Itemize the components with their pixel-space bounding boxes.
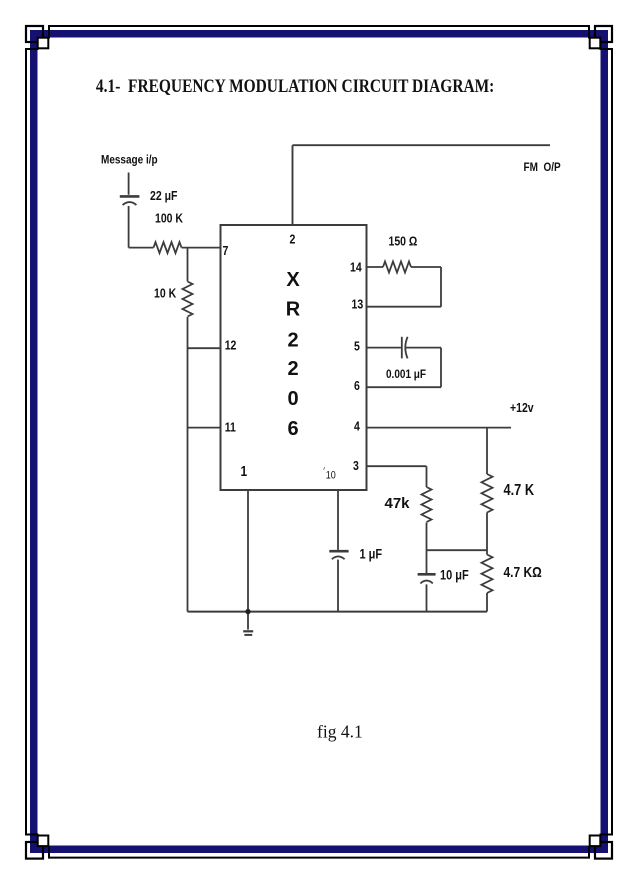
svg-text:150 Ω: 150 Ω (389, 235, 418, 249)
svg-text:Message i/p: Message i/p (101, 154, 158, 167)
svg-text:47k: 47k (385, 495, 411, 512)
svg-text:2: 2 (290, 233, 296, 247)
svg-text:14: 14 (350, 261, 362, 275)
svg-text:13: 13 (352, 297, 364, 311)
svg-text:10 μF: 10 μF (440, 567, 469, 582)
svg-text:2: 2 (287, 330, 298, 352)
svg-text:22 μF: 22 μF (150, 189, 177, 203)
svg-text:10: 10 (326, 470, 336, 482)
svg-text:X: X (286, 269, 300, 291)
svg-text:1: 1 (241, 463, 248, 479)
svg-text:fig 4.1: fig 4.1 (317, 721, 363, 741)
svg-text:4.7 KΩ: 4.7 KΩ (504, 564, 543, 580)
svg-text:0.001 μF: 0.001 μF (386, 368, 426, 381)
svg-text:+12v: +12v (510, 401, 534, 415)
svg-text:4: 4 (354, 420, 360, 434)
svg-text:3: 3 (353, 459, 359, 473)
svg-text:0: 0 (287, 388, 298, 410)
svg-text:6: 6 (287, 418, 298, 440)
svg-text:6: 6 (354, 379, 360, 393)
svg-text:7: 7 (223, 244, 229, 258)
svg-text:11: 11 (225, 421, 237, 435)
svg-text:12: 12 (225, 338, 237, 352)
svg-text:1 μF: 1 μF (360, 547, 383, 562)
svg-text:10 K: 10 K (154, 287, 177, 301)
svg-text:R: R (286, 299, 301, 321)
svg-text:100 K: 100 K (155, 212, 183, 226)
svg-text:2: 2 (287, 358, 298, 380)
svg-text:FM O/P: FM O/P (524, 161, 562, 174)
svg-text:5: 5 (354, 340, 360, 354)
svg-text:4.1- FREQUENCY MODULATION CIR: 4.1- FREQUENCY MODULATION CIRCUIT DIAGRA… (96, 76, 494, 97)
svg-text:4.7 K: 4.7 K (504, 482, 535, 499)
